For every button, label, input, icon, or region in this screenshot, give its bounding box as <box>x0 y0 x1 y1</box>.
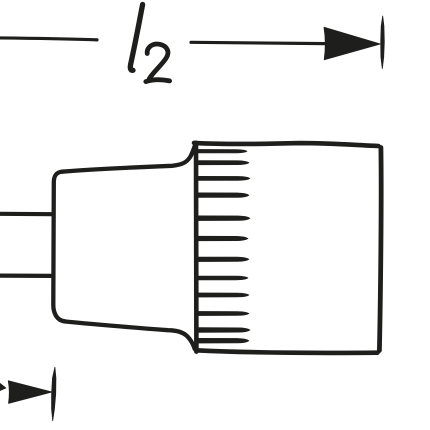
knurl tooth 5 <box>198 216 250 221</box>
arrowhead right (filled) <box>324 27 380 59</box>
lower dimension line stub at left edge <box>0 382 6 392</box>
body left edge with rounded corners <box>53 172 64 322</box>
body top edge + neck curve <box>62 145 195 172</box>
knurl tooth 11 <box>198 328 250 333</box>
arrowhead lower (filled) <box>8 381 51 403</box>
body bottom edge + neck curve <box>64 321 195 349</box>
label l2 subscript 2 <box>146 44 170 82</box>
knurl tooth 7 <box>198 257 249 262</box>
head right edge <box>379 148 381 351</box>
head top edge <box>194 143 379 146</box>
shank bottom edge <box>0 274 53 278</box>
knurl tooth 3 <box>198 176 250 180</box>
label l2 letter l <box>130 5 142 71</box>
knurl tooth 1 <box>198 149 247 153</box>
knurl tooth 4 <box>198 193 249 198</box>
knurl tooth 10 <box>198 311 249 315</box>
head bottom edge <box>196 350 378 353</box>
knurl tooth 12 <box>198 338 249 343</box>
shank top edge <box>0 212 53 217</box>
dimension line l2 right segment <box>191 42 326 43</box>
knurl tooth 2 <box>198 161 249 165</box>
knurl tooth 8 <box>198 276 248 280</box>
extension tick lower <box>52 367 56 421</box>
dimension line l2 left segment <box>0 38 97 40</box>
knurl tooth 6 <box>198 236 248 241</box>
extension tick right <box>381 16 385 69</box>
knurl spine (head left edge) <box>194 143 199 352</box>
knurl tooth 9 <box>198 293 249 297</box>
